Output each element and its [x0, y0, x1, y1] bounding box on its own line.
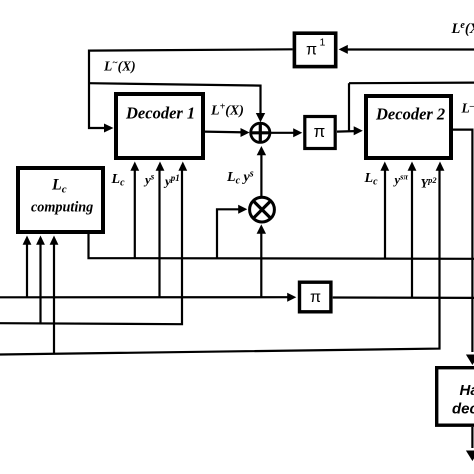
svg-text:decision: decision [452, 401, 474, 418]
svg-text:π: π [314, 122, 326, 141]
svg-text:computing: computing [31, 200, 93, 216]
svg-text:π: π [306, 42, 317, 59]
svg-text:π: π [310, 289, 321, 306]
svg-text:1: 1 [320, 37, 326, 49]
svg-text:Decoder 1: Decoder 1 [125, 104, 195, 123]
svg-text:L+(X): L+(X) [210, 102, 244, 119]
svg-text:Decoder 2: Decoder 2 [375, 105, 445, 124]
svg-text:L~(X): L~(X) [103, 59, 136, 74]
svg-text:Hard: Hard [460, 382, 474, 399]
svg-text:Lc ys: Lc ys [226, 169, 254, 187]
